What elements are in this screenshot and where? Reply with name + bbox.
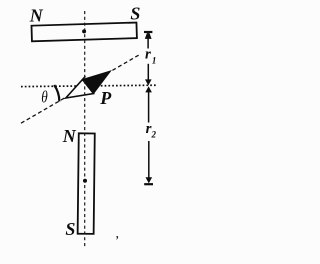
compass needle head (black half) — [83, 71, 111, 94]
svg-text:P: P — [99, 88, 112, 108]
svg-text:N: N — [62, 126, 77, 146]
angle arc for theta — [54, 85, 59, 101]
pivot dot of magnet 1 — [82, 29, 86, 33]
magnet 1 (top horizontal bar magnet) — [31, 23, 136, 42]
pivot dot of magnet 2 — [83, 179, 87, 183]
dimension r1: arrowhead up — [145, 33, 152, 39]
svg-text:N: N — [29, 6, 44, 26]
compass needle tail (white half) — [66, 80, 94, 99]
dimension r2: upper stem — [148, 91, 150, 122]
svg-text:S: S — [130, 4, 140, 24]
dimension r2: bottom T-bar — [144, 183, 153, 185]
dimension r1: arrowhead down at dotted line — [145, 79, 152, 85]
svg-text:,: , — [116, 227, 120, 242]
dimension r2: arrowhead up at dotted line — [145, 86, 152, 92]
dimension r2: arrowhead down — [146, 177, 153, 183]
dimension r2: lower stem — [148, 141, 150, 178]
magnet 2 (lower vertical bar magnet) — [78, 133, 95, 234]
vertical dashed axis line — [84, 11, 86, 247]
dimension r1: top T-bar — [144, 31, 152, 33]
label theta — [41, 89, 47, 107]
svg-text:θ: θ — [41, 89, 47, 107]
dimension r1: lower stem — [147, 64, 149, 81]
dimension r1: upper stem — [147, 38, 149, 49]
horizontal dotted line through P — [21, 85, 158, 86]
diagonal dashed line through P — [21, 54, 141, 123]
svg-text:S: S — [65, 219, 75, 239]
compass needle tail edge overshoot at top vertex — [83, 76, 86, 79]
